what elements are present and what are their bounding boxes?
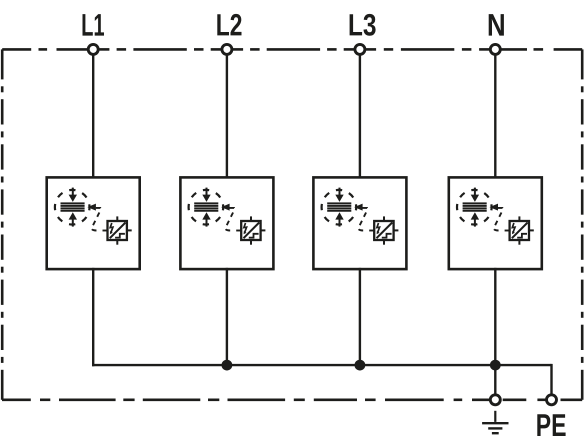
SPD module L2: enclosure box — [180, 177, 273, 269]
wire bus to PE terminal — [550, 364, 552, 396]
dashed trigger link (L3) — [358, 208, 367, 231]
terminal L1 — [88, 44, 98, 54]
label L3 — [350, 14, 376, 36]
wire N module to PE bus and earth terminal — [494, 268, 496, 396]
top arrow into spark gap (N) — [471, 188, 479, 202]
bottom arrow into spark gap (L1) — [69, 212, 77, 226]
side trigger arrow (L3) — [354, 204, 363, 211]
dashed trigger link (L1) — [92, 208, 101, 231]
terminal N — [490, 44, 500, 54]
spark gap electrode stack (L1) — [61, 202, 85, 211]
terminal earth (ground) — [490, 395, 500, 405]
label N — [489, 14, 504, 35]
enclosure border top chain line — [2, 48, 582, 51]
ground symbol — [482, 411, 508, 433]
bottom arrow into spark gap (N) — [471, 212, 479, 226]
spark gap dashed circle (N) — [457, 190, 492, 225]
wire L2 terminal to module — [226, 53, 228, 178]
bottom arrow into spark gap (L2) — [202, 212, 210, 226]
PE bus — [92, 364, 552, 366]
spark gap electrode stack (L3) — [327, 202, 351, 211]
wire L3 terminal to module — [359, 53, 361, 178]
spark gap dashed circle (L1) — [55, 190, 90, 225]
terminal PE — [547, 395, 557, 405]
enclosure border bottom chain line — [2, 398, 582, 401]
trigger electronics box (N) — [510, 216, 534, 244]
top arrow into spark gap (L2) — [202, 188, 210, 202]
bottom arrow into spark gap (L3) — [335, 212, 343, 226]
side trigger arrow (N) — [490, 204, 499, 211]
side trigger arrow (L2) — [221, 204, 230, 211]
top arrow into spark gap (L1) — [69, 188, 77, 202]
spark gap dashed circle (L3) — [322, 190, 357, 225]
wire L1 module to PE bus — [92, 268, 94, 366]
trigger electronics box (L2) — [241, 216, 265, 244]
wire L2 module to PE bus — [226, 268, 228, 366]
SPD module N: enclosure box — [449, 177, 542, 269]
label L1 — [83, 14, 105, 35]
wire L1 terminal to module — [92, 53, 94, 178]
spark gap electrode stack (N) — [463, 202, 487, 211]
wire N terminal to module — [494, 53, 496, 178]
SPD module L1: enclosure box — [47, 177, 140, 269]
spark gap dashed circle (L2) — [189, 190, 224, 225]
enclosure border right chain line — [581, 49, 584, 399]
terminal L2 — [222, 44, 232, 54]
junction dot L2/PE bus — [222, 360, 233, 371]
enclosure border left chain line — [1, 49, 4, 399]
terminal L3 — [355, 44, 365, 54]
trigger electronics box (L1) — [108, 216, 132, 244]
wire L3 module to PE bus — [359, 268, 361, 366]
junction dot N/PE bus — [490, 360, 501, 371]
label PE — [537, 414, 565, 436]
junction dot L3/PE bus — [355, 360, 366, 371]
spark gap electrode stack (L2) — [194, 202, 218, 211]
SPD module L3: enclosure box — [313, 177, 406, 269]
dashed trigger link (L2) — [225, 208, 234, 231]
label L2 — [217, 14, 241, 36]
top arrow into spark gap (L3) — [335, 188, 343, 202]
trigger electronics box (L3) — [374, 216, 398, 244]
side trigger arrow (L1) — [87, 204, 96, 211]
dashed trigger link (N) — [494, 208, 503, 231]
